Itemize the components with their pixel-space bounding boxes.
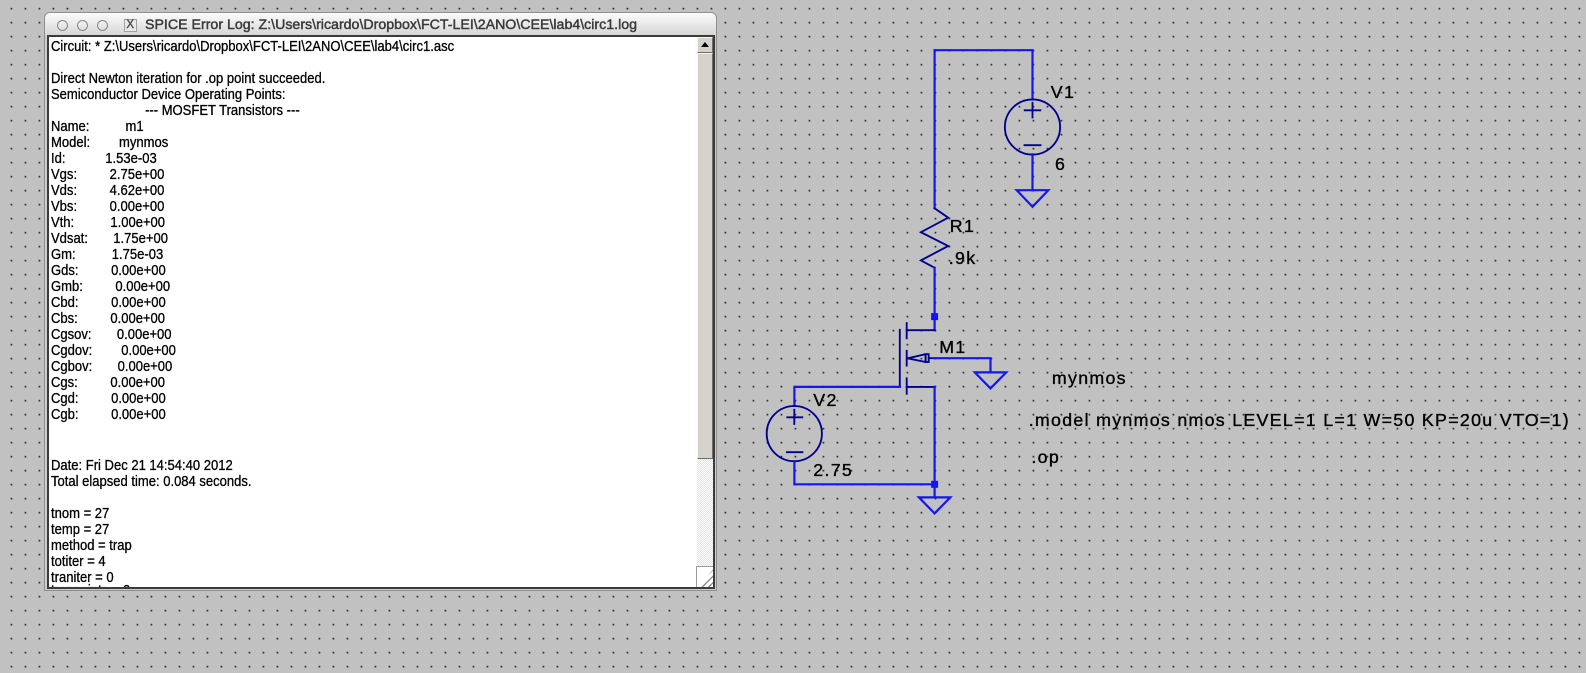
wire gate to V2 bbox=[794, 387, 899, 406]
label .9k bbox=[949, 250, 977, 268]
scrollbar track stipple bbox=[697, 37, 713, 587]
schematic directive .op bbox=[1031, 449, 1060, 467]
wire V1 top lead bbox=[1031, 50, 1033, 99]
content area bbox=[47, 35, 715, 589]
ground under V1 bbox=[1017, 190, 1049, 207]
ground bottom bbox=[919, 497, 950, 513]
wire M1 source down bbox=[933, 387, 935, 484]
title icon bbox=[124, 19, 137, 32]
title text bbox=[145, 18, 637, 33]
schematic text mynmos bbox=[1052, 370, 1127, 388]
wire R1 column top bbox=[933, 50, 935, 208]
label M1 bbox=[939, 339, 966, 357]
label V1 bbox=[1051, 84, 1075, 102]
wire bulk to ground bbox=[935, 358, 991, 372]
wire top horizontal V1 to R1 column bbox=[935, 49, 1033, 51]
wire to bottom ground bbox=[933, 484, 935, 497]
ground at M1 bulk bbox=[975, 372, 1006, 388]
SPICE Error Log window bbox=[44, 12, 717, 591]
scrollbar up button bbox=[697, 37, 713, 53]
label R1 bbox=[950, 218, 975, 236]
log text block 1 bbox=[51, 39, 454, 423]
scrollbar thumb bbox=[697, 53, 713, 459]
title bar bbox=[45, 13, 716, 36]
scrollbar bbox=[697, 37, 713, 587]
voltage source V1 bbox=[1005, 99, 1060, 154]
schematic directive .model bbox=[1029, 412, 1570, 430]
wire V2 bottom bbox=[794, 461, 934, 484]
voltage source V2 bbox=[767, 406, 822, 461]
label value 2.75 bbox=[813, 462, 853, 480]
transistor M1 bbox=[900, 323, 935, 394]
node junction R1/drain bbox=[931, 313, 938, 320]
resize grip bbox=[696, 566, 713, 587]
resistor R1 bbox=[921, 208, 948, 267]
wire V1 bottom lead bbox=[1031, 154, 1033, 190]
node junction source/V2/ground bbox=[931, 481, 938, 488]
traffic light buttons bbox=[57, 20, 69, 32]
log text block 2 bbox=[51, 458, 252, 602]
label V2 bbox=[813, 392, 837, 410]
label value 6 bbox=[1055, 156, 1066, 174]
wire R1 bottom to drain bbox=[933, 268, 935, 331]
